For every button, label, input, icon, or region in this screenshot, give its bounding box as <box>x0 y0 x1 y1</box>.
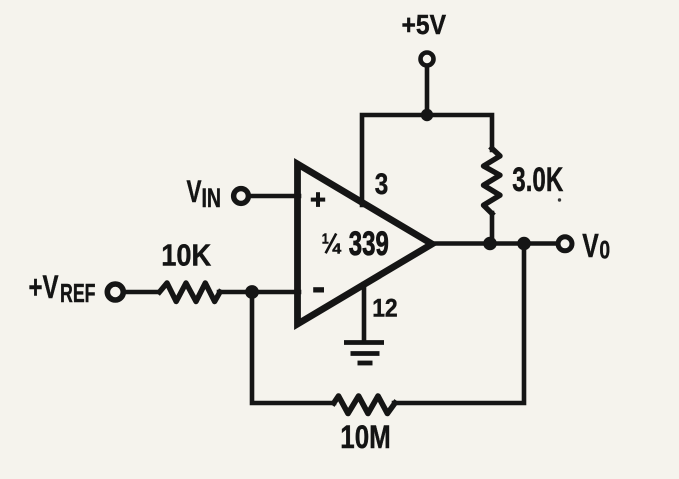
junction node at +5V rail <box>421 109 433 121</box>
op-amp minus input sign <box>313 287 324 292</box>
wire top rail with pin3 drop and right leg <box>362 115 492 205</box>
wire +5V stem <box>425 68 430 115</box>
scan speck <box>558 198 561 201</box>
svg-text:V: V <box>582 227 599 264</box>
svg-text:+V: +V <box>29 269 59 305</box>
svg-text:0: 0 <box>599 238 610 265</box>
wire bottom rail left + feedback vertical <box>252 292 334 403</box>
wire pin 12 <box>362 284 367 340</box>
terminal VIN <box>234 189 249 204</box>
svg-text:339: 339 <box>349 225 389 263</box>
svg-text:10K: 10K <box>161 239 211 273</box>
resistor R 10M zigzag <box>334 396 395 414</box>
svg-text:+5V: +5V <box>402 9 447 40</box>
terminal +VREF <box>107 284 123 300</box>
svg-text:IN: IN <box>202 183 222 213</box>
junction node inverting input <box>245 285 259 299</box>
svg-text:4: 4 <box>332 242 341 258</box>
wire VIN lead <box>252 194 299 199</box>
svg-text:REF: REF <box>60 278 96 308</box>
wire inverting input <box>219 290 299 295</box>
op-amp U1 1/4 339 triangle <box>298 164 433 324</box>
svg-text:3.0K: 3.0K <box>512 161 563 199</box>
ground symbol <box>344 343 384 364</box>
svg-text:10M: 10M <box>340 419 391 455</box>
wire VREF lead <box>126 290 158 295</box>
svg-text:V: V <box>187 173 202 209</box>
junction node output A <box>483 237 497 251</box>
wire 3.0K bottom lead <box>490 213 495 244</box>
resistor R 10K zigzag <box>160 283 221 302</box>
svg-text:3: 3 <box>375 168 389 201</box>
wire right vertical + bottom rail right <box>394 244 524 404</box>
terminal V0 <box>558 237 572 251</box>
resistor R 3.0K zigzag <box>484 148 501 213</box>
op-amp plus input sign <box>311 192 325 207</box>
wire output <box>430 241 557 246</box>
junction node output B <box>517 237 531 251</box>
svg-text:1: 1 <box>322 232 329 248</box>
svg-text:12: 12 <box>372 295 398 323</box>
terminal +5V <box>421 53 434 66</box>
